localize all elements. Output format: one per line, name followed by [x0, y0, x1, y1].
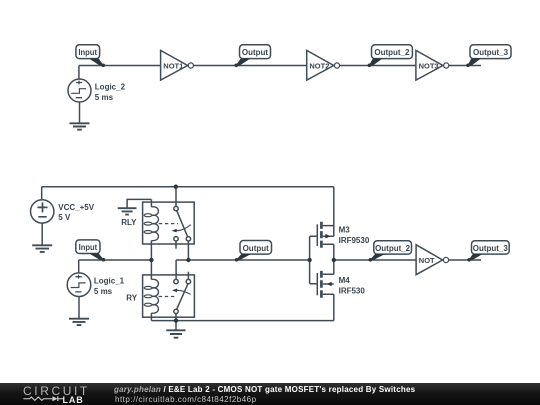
svg-text:NOT1: NOT1 — [163, 62, 183, 71]
svg-text:NOT2: NOT2 — [309, 62, 329, 71]
svg-text:Output_2: Output_2 — [374, 48, 410, 57]
svg-text:Input: Input — [79, 243, 98, 252]
svg-text:RLY: RLY — [121, 218, 137, 227]
svg-text:NOT: NOT — [419, 256, 435, 265]
svg-text:Output: Output — [243, 244, 270, 253]
svg-text:Output_3: Output_3 — [473, 244, 509, 253]
svg-text:Output: Output — [242, 48, 269, 57]
svg-text:5 ms: 5 ms — [95, 93, 114, 102]
svg-text:M3: M3 — [339, 225, 351, 234]
svg-text:Output_2: Output_2 — [375, 244, 411, 253]
svg-text:Logic_1: Logic_1 — [94, 276, 125, 285]
svg-text:VCC_+5V: VCC_+5V — [58, 203, 94, 212]
svg-text:M4: M4 — [339, 276, 351, 285]
svg-text:5 V: 5 V — [58, 213, 71, 222]
svg-text:IRF9530: IRF9530 — [339, 236, 370, 245]
svg-text:Input: Input — [78, 48, 97, 57]
svg-text:Output_3: Output_3 — [473, 48, 509, 57]
svg-text:Logic_2: Logic_2 — [95, 82, 126, 91]
svg-text:5 ms: 5 ms — [94, 287, 113, 296]
svg-text:IRF530: IRF530 — [339, 287, 366, 296]
svg-text:RY: RY — [126, 293, 137, 302]
svg-text:NOT3: NOT3 — [419, 62, 439, 71]
